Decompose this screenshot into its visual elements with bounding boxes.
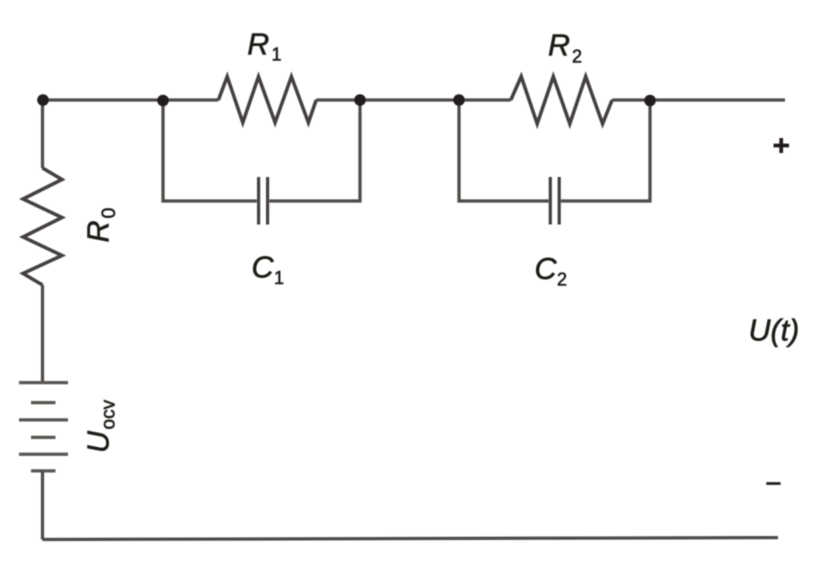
+ terminal	[774, 138, 790, 153]
svg-text:ocv: ocv	[99, 399, 120, 429]
svg-text:0: 0	[98, 208, 120, 219]
svg-text:U: U	[82, 430, 116, 453]
wire: left branch node A down to R0	[41, 100, 44, 168]
svg-text:U(t): U(t)	[749, 314, 800, 348]
svg-text:C: C	[252, 251, 275, 285]
node: R1C1 right junction	[354, 94, 366, 106]
battery Uocv plates	[19, 383, 68, 471]
node: R1C1 left junction	[157, 95, 169, 107]
wire: battery bottom plate down	[41, 471, 44, 540]
svg-text:R: R	[247, 28, 269, 62]
svg-text:2: 2	[572, 47, 582, 67]
node: R2C2 right junction	[644, 95, 656, 107]
resistor R2	[511, 77, 612, 124]
label Uocv (rotated)	[82, 399, 120, 453]
svg-text:R: R	[82, 220, 116, 242]
wire: top rail left segment (node A to R1 left lead)	[43, 98, 218, 101]
svg-text:C: C	[535, 252, 558, 286]
wire: R0 to battery top plate	[41, 285, 44, 383]
wire: top rail right segment (R2 right lead to + terminal)	[612, 98, 785, 101]
label R2	[548, 29, 582, 67]
resistor R0	[23, 168, 62, 285]
node A (top-left junction)	[37, 94, 49, 106]
label R0 (rotated)	[82, 208, 121, 243]
wire: top rail middle segment (node B to R2 left lead)	[316, 98, 511, 101]
- terminal	[766, 482, 780, 485]
node: R2C2 left junction	[453, 94, 465, 106]
label R1	[247, 28, 281, 65]
wire: R2C2 parallel loop	[459, 100, 650, 201]
capacitor C1	[259, 177, 268, 225]
wire: bottom rail to - terminal	[43, 538, 779, 540]
label C2	[535, 252, 568, 289]
svg-text:1: 1	[272, 45, 282, 65]
svg-text:1: 1	[274, 268, 284, 288]
svg-text:R: R	[548, 29, 570, 63]
wire: R1C1 parallel loop	[163, 100, 360, 201]
svg-text:2: 2	[557, 270, 567, 290]
resistor R1	[218, 77, 316, 123]
capacitor C2	[550, 177, 559, 225]
label C1	[252, 251, 285, 288]
